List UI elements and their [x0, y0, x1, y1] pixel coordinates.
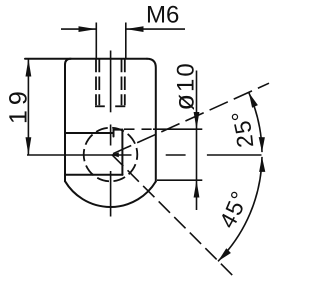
thread dashed line outer-left — [95, 59, 97, 106]
thread dashed line inner-right — [121, 59, 123, 106]
45deg dashed line — [112, 155, 234, 276]
horizontal centerline left segment — [27, 154, 132, 156]
25deg dimension arc — [249, 93, 262, 153]
M6 extension line right — [125, 23, 127, 59]
thread bottom tick left — [95, 105, 105, 107]
M6 extension line left — [95, 23, 97, 59]
19 dimension line — [27, 59, 29, 155]
slot top line — [65, 132, 114, 134]
dia10 top extension dash a — [124, 128, 135, 130]
body bottom arc — [65, 181, 156, 207]
45deg arc arrow upper — [259, 157, 265, 172]
25deg arc arrow lower — [259, 137, 265, 152]
dia10 top extension dash b — [142, 128, 152, 130]
svg-text:M6: M6 — [146, 2, 179, 29]
svg-text:ø10: ø10 — [170, 61, 200, 110]
dia10 top extension line — [153, 128, 202, 130]
body top line with left extension — [25, 58, 147, 60]
vertical centerline lower segment — [110, 171, 112, 217]
slot bottom line — [65, 174, 123, 176]
horizontal centerline right segment — [207, 154, 262, 156]
45deg arc arrow lower — [218, 248, 231, 261]
center arrow pointing left — [111, 152, 119, 157]
thread dashed line inner-left — [98, 59, 100, 106]
dia10 arrow down — [194, 112, 200, 129]
ball circle dashed — [84, 128, 138, 182]
slot step vertical — [121, 130, 123, 175]
M6 dimension line left tail — [61, 28, 96, 30]
svg-text:19: 19 — [4, 86, 32, 124]
slot step top short horizontal — [114, 129, 123, 131]
thread bottom tick right — [115, 105, 125, 107]
M6 arrow left — [79, 26, 97, 32]
M6 arrow right — [126, 26, 144, 32]
vertical centerline upper segment — [110, 51, 112, 113]
vertical centerline middle segment — [110, 125, 112, 146]
19 arrow down — [26, 137, 32, 155]
25deg dashed line — [113, 83, 269, 154]
body top-right corner and right edge — [147, 59, 156, 182]
body left edge and top-left corner — [65, 59, 71, 182]
M6 dimension line right tail / underline — [126, 28, 185, 30]
dia10 bottom extension line — [157, 179, 202, 181]
horizontal centerline middle segment — [166, 154, 186, 156]
thread dashed line outer-right — [124, 59, 126, 106]
19 arrow up — [26, 59, 32, 77]
25deg arc arrow upper — [249, 93, 258, 108]
dia10 dimension line — [196, 71, 198, 211]
slot step small vertical — [113, 130, 115, 137]
45deg dimension arc — [218, 157, 262, 261]
dia10 arrow up — [194, 180, 200, 197]
